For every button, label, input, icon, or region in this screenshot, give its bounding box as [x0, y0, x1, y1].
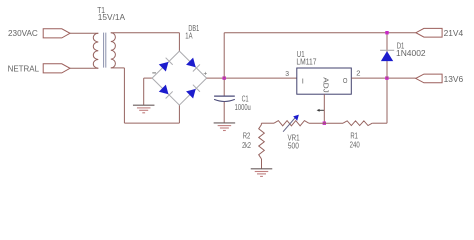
svg-text:ADJ: ADJ — [321, 77, 330, 93]
resistor R1 — [343, 121, 372, 150]
svg-text:2: 2 — [356, 69, 360, 78]
junction at output — [385, 76, 388, 79]
svg-text:13V6: 13V6 — [444, 75, 464, 84]
wire adj row left — [261, 122, 274, 124]
capacitor C1 — [214, 79, 251, 123]
svg-text:I: I — [302, 76, 304, 85]
wire bridge plus to U1 input — [207, 77, 297, 79]
wire T1 secondary bottom to bridge — [111, 68, 180, 123]
wire NETRAL to T1 primary — [70, 67, 98, 69]
wire bridge minus to ground — [144, 78, 152, 105]
diode D1 — [380, 33, 426, 78]
svg-text:+: + — [203, 71, 207, 78]
junction at C1 — [223, 76, 226, 79]
svg-text:O: O — [343, 76, 348, 85]
transformer T1 — [93, 6, 126, 68]
svg-text:LM117: LM117 — [296, 57, 316, 66]
wire U1 output to port — [351, 77, 415, 79]
junction at ADJ — [323, 122, 326, 125]
wire R1 to output node — [372, 78, 387, 123]
regulator U1 LM117 — [285, 50, 360, 112]
ground below transformer — [133, 105, 155, 113]
DB1 diode bottom-right — [186, 85, 200, 99]
wire T1 secondary top to bridge — [111, 33, 180, 52]
potentiometer VR1 — [274, 115, 309, 151]
bridge rectifier DB1 — [152, 24, 207, 105]
ground below R2 — [251, 169, 273, 177]
DB1 diode top-right — [186, 58, 200, 72]
port 21V4 — [416, 28, 464, 37]
wire up to top rail — [224, 33, 416, 78]
svg-text:21V4: 21V4 — [444, 29, 464, 38]
svg-text:R2: R2 — [243, 131, 251, 140]
svg-text:3: 3 — [285, 69, 289, 78]
port 13V6 — [416, 74, 464, 84]
svg-text:1000u: 1000u — [235, 103, 251, 112]
svg-text:500: 500 — [288, 142, 300, 151]
junction at D1 top — [385, 31, 388, 34]
wire 230VAC to T1 primary — [70, 32, 98, 34]
port NETRAL — [8, 64, 70, 74]
wire VR1 to R1 — [309, 122, 343, 124]
svg-text:R1: R1 — [350, 132, 358, 141]
wire U1 adj down — [323, 94, 325, 123]
svg-text:1N4002: 1N4002 — [396, 49, 426, 58]
svg-text:15V/1A: 15V/1A — [98, 13, 126, 22]
svg-text:230VAC: 230VAC — [8, 29, 38, 38]
DB1 diode left-bottom — [159, 85, 173, 99]
svg-text:1A: 1A — [185, 32, 193, 41]
port 230VAC — [8, 29, 70, 38]
ground below C1 — [214, 123, 236, 131]
DB1 diode left-top — [159, 58, 173, 72]
resistor R2 — [242, 123, 264, 168]
svg-text:2k2: 2k2 — [242, 141, 251, 150]
svg-text:240: 240 — [350, 140, 361, 149]
svg-text:NETRAL: NETRAL — [8, 65, 40, 74]
